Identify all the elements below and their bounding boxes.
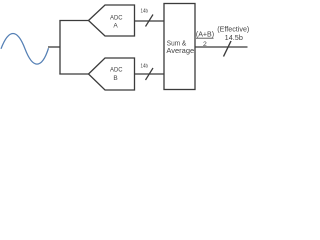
sine wave input signal <box>1 34 49 65</box>
ADC A block <box>89 5 135 36</box>
wire ADC B output bus <box>135 73 165 75</box>
bus width slash A <box>146 15 154 27</box>
svg-text:A: A <box>113 23 118 30</box>
svg-text:14b: 14b <box>141 8 149 14</box>
svg-text:(A+B): (A+B) <box>196 31 214 38</box>
wire from source to split node <box>48 46 60 48</box>
svg-text:ADC: ADC <box>110 67 123 74</box>
wire vertical splitter <box>59 21 61 75</box>
svg-text:ADC: ADC <box>110 14 123 21</box>
svg-text:(Effective): (Effective) <box>217 24 249 33</box>
wire ADC A output bus <box>135 20 165 22</box>
svg-text:B: B <box>113 75 117 82</box>
ADC B block <box>89 58 135 90</box>
svg-text:14b: 14b <box>141 63 149 69</box>
svg-text:14.5b: 14.5b <box>225 34 243 42</box>
bus width slash B <box>146 68 154 80</box>
svg-text:Average: Average <box>166 46 194 55</box>
wire output bus <box>195 46 248 48</box>
wire to ADC B input <box>59 73 88 75</box>
output bus width slash <box>224 41 232 57</box>
svg-text:2: 2 <box>203 41 207 48</box>
wire to ADC A input <box>59 20 88 22</box>
Sum & Average block <box>164 4 195 90</box>
output label fraction (A+B)/2 <box>196 31 214 48</box>
